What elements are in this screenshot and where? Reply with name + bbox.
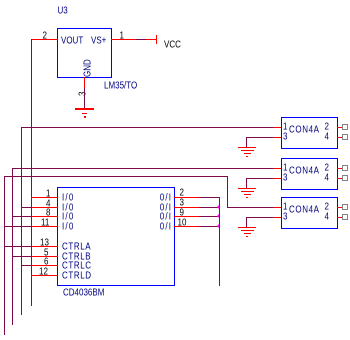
VCC stub xyxy=(146,39,156,40)
J1 pin4 port xyxy=(342,134,348,140)
ground (U3) xyxy=(75,108,94,110)
pin number 13 xyxy=(40,238,49,248)
pin number 6 xyxy=(44,257,48,267)
pin name VOUT xyxy=(61,36,83,46)
pin name I/O (1) xyxy=(62,193,75,203)
sensor U3 LM35 body xyxy=(57,28,112,78)
pin name O/I (3) xyxy=(160,203,173,213)
value label CD4066BM xyxy=(63,288,104,298)
wire rail D xyxy=(4,176,5,335)
pin number 1 (U3) xyxy=(120,31,124,41)
wire right rail vertical xyxy=(219,197,220,286)
J1 label CON4A xyxy=(289,125,320,135)
J1 pin2 stub xyxy=(337,127,343,128)
pin number 5 xyxy=(44,248,48,258)
connector J3 body xyxy=(281,197,338,229)
pin name I/O (8) xyxy=(62,212,75,222)
ground (J1) xyxy=(238,147,256,148)
net label VCC xyxy=(164,40,181,50)
J3 pin2 port xyxy=(342,204,348,210)
J2 pin2 port xyxy=(342,165,348,171)
ground (J2) xyxy=(238,188,256,189)
J1 pin4 stub xyxy=(337,137,343,138)
J1 pin name 3 xyxy=(283,132,287,142)
J2 pin4 stub xyxy=(337,178,343,179)
junction at pin9 xyxy=(217,214,219,218)
J3 label CON4A xyxy=(289,205,320,215)
pin name CTRLC xyxy=(62,261,92,271)
pin 3 stub xyxy=(174,207,199,208)
wire pin3 to ground xyxy=(84,88,85,108)
J3 pin2 stub xyxy=(337,207,343,208)
pin number 10 (right) xyxy=(178,218,187,228)
J1 pin2 port xyxy=(342,124,348,130)
wire pin9 to right rail xyxy=(199,216,220,217)
wire CTRLC xyxy=(21,265,32,266)
J2 pin name 4 xyxy=(325,173,329,183)
pin 6 stub xyxy=(32,265,58,266)
pin number 3 (right) xyxy=(180,198,184,208)
pin number 2 (right) xyxy=(180,188,184,198)
wire pin11 xyxy=(4,226,32,227)
value label LM35/TO xyxy=(104,81,137,91)
wire pin10 to right rail xyxy=(199,226,220,227)
pin 12 stub xyxy=(31,275,58,276)
J3 pin name 1 xyxy=(283,202,287,212)
ground (J3) xyxy=(238,227,256,228)
pin name VS+ xyxy=(91,36,106,46)
wire rail C xyxy=(12,168,13,325)
pin 10 stub xyxy=(174,226,199,227)
pin 13 stub xyxy=(32,246,58,247)
pin 3 stub (GND pin) xyxy=(84,77,85,88)
J2 pin name 1 xyxy=(283,163,287,173)
J1 pin name 2 xyxy=(325,122,329,132)
J2 label CON4A xyxy=(289,166,320,176)
J1 pin3 wire to ground xyxy=(246,137,273,138)
J2 pin name 2 xyxy=(325,163,329,173)
wire bus1 to CON1 pin1 xyxy=(21,127,273,128)
power symbol VCC bar xyxy=(156,35,158,44)
connector J1 body xyxy=(281,117,338,149)
pin 4 stub xyxy=(32,207,58,208)
J3 pin3 wire to ground xyxy=(246,217,273,218)
pin number 2 (U3) xyxy=(43,31,47,41)
pin number 12 xyxy=(39,267,48,277)
wire bus3 to CON3 pin1 xyxy=(227,207,273,208)
J1 pin name 1 xyxy=(283,122,287,132)
wire CTRLB xyxy=(12,256,32,257)
J3 pin4 port xyxy=(342,214,348,220)
wire bus3 horizontal xyxy=(4,176,228,177)
pin name O/I (2) xyxy=(160,193,173,203)
pin name GND (rotated) xyxy=(83,55,93,77)
J3 pin4 stub xyxy=(337,217,343,218)
pin number 9 (right) xyxy=(180,208,184,218)
wire rail A (VOUT net vertical) xyxy=(31,39,32,306)
pin name CTRLB xyxy=(62,252,91,262)
pin 5 stub xyxy=(32,256,58,257)
pin 9 stub xyxy=(174,216,199,217)
IC CD4066 body xyxy=(57,187,175,286)
pin number 3 (U3, rotated) xyxy=(78,84,88,96)
pin 11 stub xyxy=(32,226,58,227)
pin name CTRLD xyxy=(62,271,92,281)
wire pin4 xyxy=(21,207,32,208)
pin number 4 xyxy=(46,199,50,209)
pin 8 stub xyxy=(32,216,58,217)
pin name O/I (9) xyxy=(160,212,173,222)
pin name CTRLA xyxy=(62,242,91,252)
wire bus2 to CON2 pin1 xyxy=(12,168,273,169)
wire pin8 xyxy=(12,216,32,217)
sensor U3 reference label xyxy=(58,6,68,16)
J2 pin2 stub xyxy=(337,168,343,169)
pin 2 stub xyxy=(31,39,58,40)
wire pin3 to right rail xyxy=(199,207,220,208)
pin 1 stub xyxy=(111,39,136,40)
junction at pin10 xyxy=(217,224,219,228)
J1 pin name 4 xyxy=(325,132,329,142)
junction at pin3 xyxy=(217,205,219,209)
J3 pin name 4 xyxy=(325,212,329,222)
J2 pin4 port xyxy=(342,175,348,181)
J2 pin3 wire to ground xyxy=(246,178,273,179)
wire pin1 to VCC xyxy=(136,39,146,40)
pin 1 stub xyxy=(31,197,58,198)
pin name O/I (10) xyxy=(160,222,173,232)
J3 pin name 3 xyxy=(283,212,287,222)
pin name I/O (11) xyxy=(62,222,75,232)
J2 pin name 3 xyxy=(283,173,287,183)
connector J2 body xyxy=(281,158,338,190)
wire pin2 to right rail xyxy=(199,197,220,198)
pin number 8 xyxy=(46,208,50,218)
wire CTRLA xyxy=(4,246,32,247)
J3 pin name 2 xyxy=(325,202,329,212)
wire rail B xyxy=(21,127,22,315)
pin number 11 xyxy=(41,218,49,228)
pin name I/O (4) xyxy=(62,203,75,213)
pin 2 stub xyxy=(174,197,199,198)
pin number 1 xyxy=(46,189,50,199)
wire bus3 vertical drop xyxy=(227,176,228,208)
